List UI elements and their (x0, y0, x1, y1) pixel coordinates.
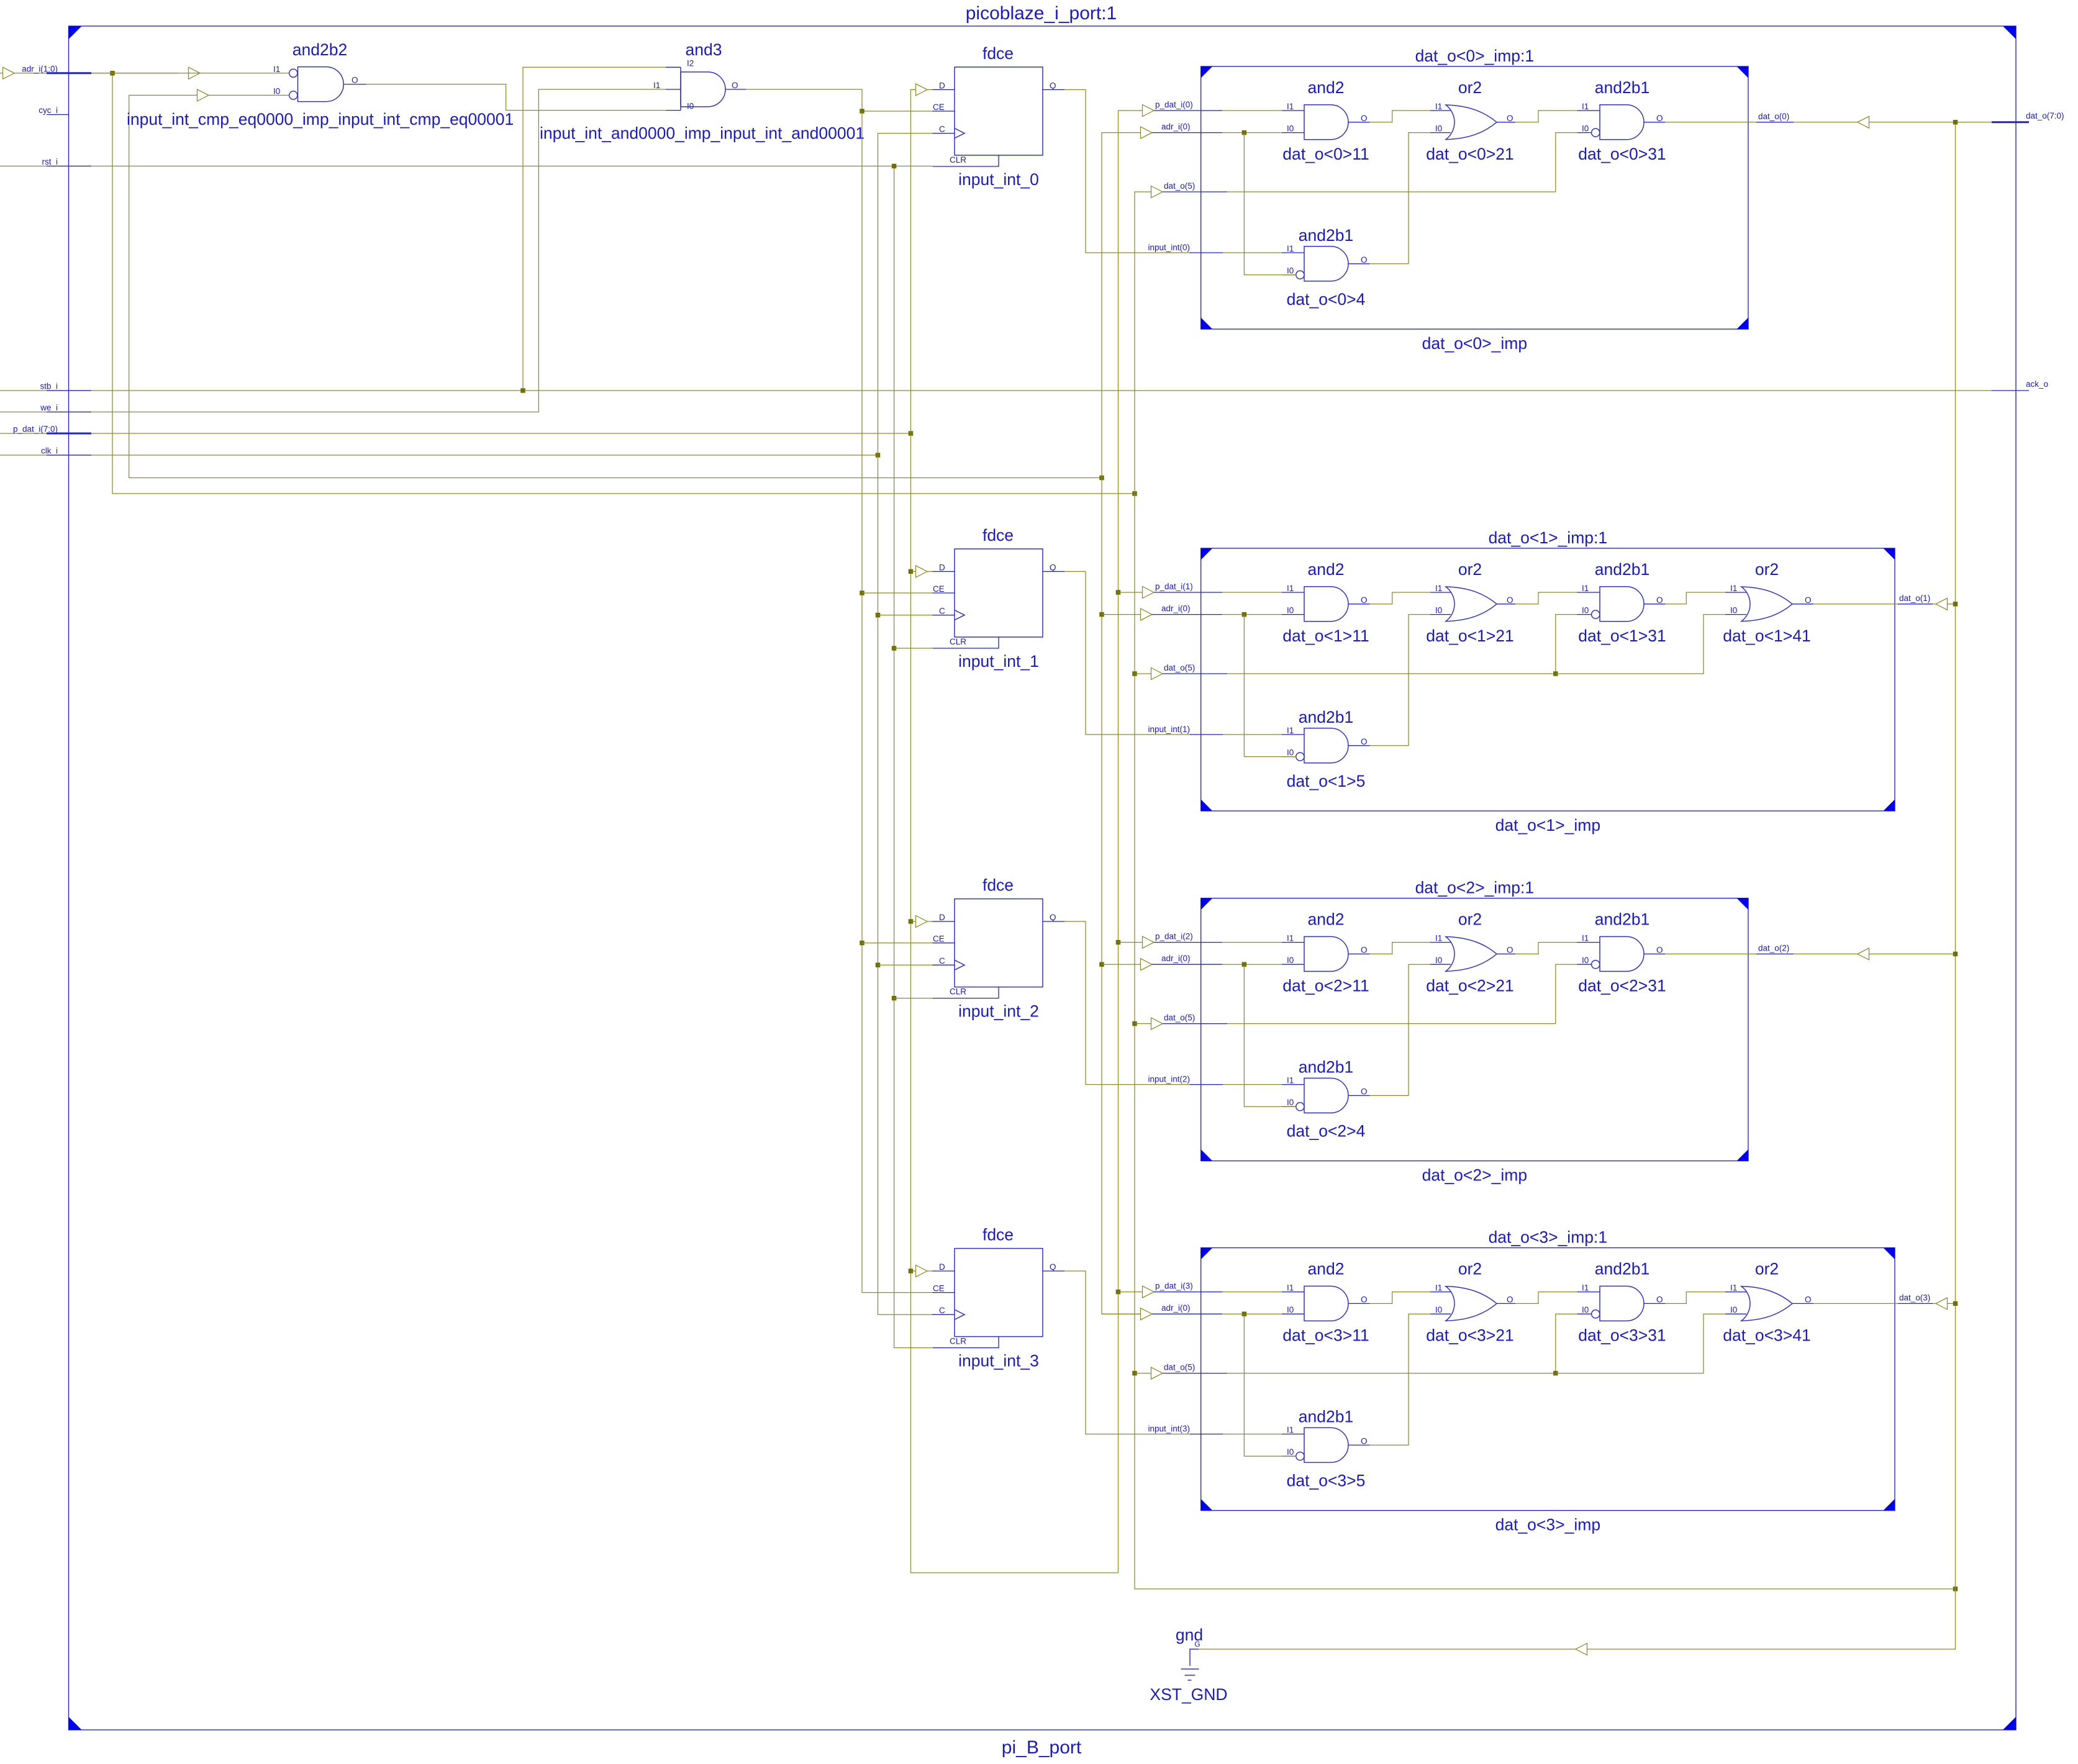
wire and2 out to or2 I1 block1 (1370, 592, 1430, 604)
svg-text:I0: I0 (1435, 1305, 1442, 1314)
svg-text:I1: I1 (1287, 726, 1294, 735)
wire rst_i to CLR rail (0, 166, 933, 167)
and-gate and2b1 dat_o<0>31 (1577, 78, 1666, 163)
svg-text:D: D (939, 913, 945, 922)
svg-text:C: C (939, 956, 945, 966)
junction adr rail block1 (1099, 612, 1104, 617)
wire or2 out to and2b1 I1 block0 (1515, 111, 1577, 122)
junction V_B branch at V5 (1099, 476, 1104, 481)
svg-text:dat_o<1>_imp: dat_o<1>_imp (1495, 816, 1600, 835)
wire and2 out to or2 I1 block0 (1370, 111, 1430, 122)
svg-text:dat_o<2>_imp: dat_o<2>_imp (1422, 1166, 1527, 1185)
svg-text:picoblaze_i_port:1: picoblaze_i_port:1 (966, 3, 1117, 24)
svg-text:CE: CE (933, 934, 945, 944)
svg-text:or2: or2 (1458, 1260, 1482, 1278)
svg-text:I1: I1 (1287, 1426, 1294, 1435)
svg-text:dat_o<2>31: dat_o<2>31 (1578, 977, 1666, 995)
svg-text:and3: and3 (686, 40, 722, 59)
or-gate or2 dat_o<1>41 (1723, 560, 1813, 645)
svg-text:D: D (939, 1262, 945, 1272)
svg-text:dat_o<3>21: dat_o<3>21 (1426, 1326, 1513, 1345)
junction V_A branch at V7 (1132, 491, 1137, 496)
svg-text:Q: Q (1050, 913, 1056, 922)
wire p_dat rail V4 with bottom link to V6 (911, 89, 1118, 1573)
svg-text:fdce: fdce (982, 1226, 1014, 1244)
svg-text:dat_o(5): dat_o(5) (1164, 181, 1195, 191)
wire we_i feed (0, 412, 538, 413)
wire dat_o(1) output to rail (1813, 594, 1955, 610)
svg-text:I1: I1 (1435, 584, 1442, 593)
svg-text:I0: I0 (1730, 1305, 1737, 1314)
wire p_dat rail V6 (1118, 111, 1145, 1573)
svg-text:and2b1: and2b1 (1595, 560, 1649, 579)
svg-text:and2: and2 (1308, 1260, 1345, 1278)
wire and2 out to or2 I1 block3 (1370, 1292, 1430, 1304)
junction C rail fdce2 (876, 962, 881, 967)
wire adr branch down to lower I0 block1 (1244, 615, 1295, 757)
junction dat_o rail block1 (1132, 671, 1137, 676)
block dat_o<2>_imp:1 border (1201, 879, 1748, 1185)
wire dat_o collection rail VR (1199, 122, 1956, 1649)
svg-text:dat_o<0>31: dat_o<0>31 (1578, 145, 1666, 163)
wire or2 out to and2b1 I1 block1 (1515, 592, 1577, 604)
wire CLR feed fdce1 (894, 648, 933, 649)
wire dat_o(5) up to and2b1 I0 block3 (1556, 1314, 1577, 1373)
junction p_dat rail fdce2 D (909, 919, 914, 924)
svg-text:p_dat_i(7:0): p_dat_i(7:0) (13, 425, 58, 434)
wire adr bus branch down (V_B) to adr rail (129, 95, 1102, 477)
svg-text:p_dat_i(1): p_dat_i(1) (1155, 582, 1193, 591)
junction p_dat rail block3 (1116, 1290, 1121, 1295)
and-gate and2b1 dat_o<2>31 (1577, 910, 1666, 995)
svg-text:dat_o<2>11: dat_o<2>11 (1282, 977, 1369, 995)
svg-text:input_int(3): input_int(3) (1148, 1424, 1190, 1434)
junction p_dat rail fdce1 D (909, 569, 914, 574)
svg-text:input_int(2): input_int(2) (1148, 1075, 1190, 1084)
svg-text:we_i: we_i (40, 403, 58, 412)
svg-text:and2b1: and2b1 (1299, 226, 1353, 245)
svg-text:ack_o: ack_o (2026, 379, 2048, 389)
svg-text:dat_o<1>5: dat_o<1>5 (1287, 772, 1366, 790)
wire C feed fdce2 (878, 964, 933, 966)
svg-text:I1: I1 (1287, 102, 1294, 111)
bus tap adr_i(0) stub block0 (1141, 122, 1282, 139)
svg-text:and2b1: and2b1 (1595, 910, 1649, 929)
svg-text:adr_i(0): adr_i(0) (1161, 954, 1191, 963)
svg-text:or2: or2 (1755, 1260, 1779, 1278)
svg-text:I0: I0 (1287, 956, 1294, 965)
svg-text:I0: I0 (1435, 606, 1442, 615)
svg-text:fdce: fdce (982, 44, 1014, 63)
svg-text:I1: I1 (1287, 1076, 1294, 1085)
svg-text:O: O (1507, 114, 1513, 123)
junction CE rail fdce1 (860, 590, 864, 595)
junction stb feed (520, 388, 525, 393)
wire and2b1 out to or2#2 I1 block3 (1665, 1292, 1725, 1304)
svg-text:and2: and2 (1308, 560, 1345, 579)
junction dat_o rail block3 (1132, 1371, 1137, 1376)
svg-text:I1: I1 (653, 81, 660, 90)
wire input_int(2) feedback from Q (1064, 921, 1282, 1085)
wire stb to and3 I2 (523, 67, 666, 391)
svg-text:dat_o<0>21: dat_o<0>21 (1426, 145, 1513, 163)
or-gate or2 dat_o<2>21 (1426, 910, 1515, 995)
port p_dat_i(7:0) (13, 425, 91, 434)
svg-text:O: O (1805, 1295, 1812, 1304)
svg-text:O: O (1361, 1087, 1368, 1096)
and-gate and2b1 dat_o<0>4 (lower) (1282, 226, 1370, 309)
svg-text:I0: I0 (687, 102, 694, 111)
svg-text:D: D (939, 563, 945, 572)
svg-text:O: O (732, 81, 738, 90)
svg-text:dat_o<0>11: dat_o<0>11 (1282, 145, 1369, 163)
and-gate and2b1 dat_o<3>31 (1577, 1260, 1666, 1345)
junction clk at V2 (876, 453, 881, 458)
svg-text:I0: I0 (1730, 606, 1737, 615)
svg-text:I1: I1 (1435, 1283, 1442, 1293)
bus tap dat_o(5) stub block3 (1135, 1363, 1556, 1380)
svg-text:and2b1: and2b1 (1299, 1058, 1353, 1077)
svg-text:dat_o(7:0): dat_o(7:0) (2026, 111, 2064, 120)
flip-flop fdce input_int_2 (932, 876, 1064, 1021)
bus tap p_dat_i(0) stub (1143, 100, 1282, 117)
svg-text:I0: I0 (1582, 956, 1589, 965)
svg-text:I1: I1 (1730, 1283, 1737, 1293)
and-gate and2b1 dat_o<1>31 (1577, 560, 1666, 645)
svg-text:or2: or2 (1755, 560, 1779, 579)
wire adr branch down to lower I0 block0 (1244, 133, 1295, 275)
junction CLR rail fdce1 (892, 646, 897, 651)
svg-text:O: O (1361, 1295, 1368, 1304)
svg-text:O: O (1361, 255, 1368, 265)
svg-text:dat_o<3>11: dat_o<3>11 (1282, 1326, 1369, 1345)
svg-text:dat_o(0): dat_o(0) (1758, 112, 1789, 121)
bus tap dat_o(5) stub block2 (1135, 1013, 1556, 1030)
svg-text:O: O (1361, 945, 1368, 954)
svg-text:I1: I1 (1582, 102, 1589, 111)
junction p_dat rail block2 (1116, 940, 1121, 945)
svg-text:dat_o(5): dat_o(5) (1164, 1013, 1195, 1023)
svg-text:I0: I0 (1582, 606, 1589, 615)
gnd wire tap arrow (1576, 1644, 1587, 1655)
svg-text:dat_o<2>4: dat_o<2>4 (1287, 1122, 1366, 1141)
wire CE feed fdce2 (862, 943, 932, 944)
junction dat_o(0) at rail (1953, 120, 1958, 125)
bus tap adr_i(0) stub block2 (1102, 954, 1282, 970)
block dat_o<1>_imp:1 border (1201, 528, 1895, 835)
block dat_o<3>_imp:1 border (1201, 1228, 1895, 1534)
svg-text:O: O (1361, 114, 1368, 123)
bus tap p_dat_i(1) stub (1118, 582, 1282, 599)
wire and3 output to CE rail (746, 89, 932, 111)
svg-text:dat_o<0>_imp:1: dat_o<0>_imp:1 (1415, 47, 1535, 65)
and-gate and2b2 input_int_cmp_eq00001 (91, 40, 514, 129)
svg-text:p_dat_i(2): p_dat_i(2) (1155, 932, 1193, 941)
wire lower and2b1 out up to or2 I0 block3 (1370, 1314, 1430, 1445)
wire dat_o(5) over to or2#2 I0 block3 (1556, 1314, 1725, 1373)
svg-text:I1: I1 (1582, 934, 1589, 943)
svg-text:and2b1: and2b1 (1595, 1260, 1649, 1278)
junction dat_o(3) at rail (1953, 1301, 1958, 1306)
svg-text:CLR: CLR (950, 155, 966, 165)
svg-text:I0: I0 (1582, 1305, 1589, 1314)
svg-text:Q: Q (1050, 81, 1056, 90)
svg-text:and2: and2 (1308, 78, 1345, 97)
bus tap adr_i(0) stub block3 (1102, 1303, 1282, 1320)
svg-text:I1: I1 (1730, 584, 1737, 593)
svg-text:dat_o<3>5: dat_o<3>5 (1287, 1472, 1366, 1490)
svg-text:and2b1: and2b1 (1299, 1408, 1353, 1426)
svg-text:input_int_2: input_int_2 (958, 1002, 1039, 1021)
wire dat_o(2) output to rail (1665, 943, 1955, 960)
svg-text:input_int_and0000_imp_input_in: input_int_and0000_imp_input_int_and00001 (540, 124, 864, 143)
junction dat_o rail bottom at VR (1953, 1586, 1958, 1591)
svg-text:O: O (1656, 945, 1663, 954)
svg-text:O: O (1656, 1295, 1663, 1304)
junction CLR rail fdce2 (892, 996, 897, 1001)
junction and3 out at CE level (860, 109, 864, 114)
wire dat_o(3) output to rail (1813, 1293, 1955, 1309)
junction adr_i(0) branch block2 (1242, 962, 1247, 967)
bus tap fdce0 D input (911, 84, 933, 96)
svg-text:O: O (1361, 595, 1368, 605)
junction adr branch at port line (110, 71, 115, 76)
port dat_o(7:0) (1956, 111, 2064, 122)
svg-text:dat_o<2>21: dat_o<2>21 (1426, 977, 1513, 995)
wire C feed fdce1 (878, 615, 933, 616)
svg-text:clk_i: clk_i (41, 446, 58, 456)
bus tap dat_o(5) stub block0 (1151, 181, 1556, 198)
svg-text:input_int_3: input_int_3 (958, 1352, 1039, 1370)
junction adr_i(0) branch block3 (1242, 1311, 1247, 1316)
wire adr rail V5 (1102, 133, 1143, 1314)
junction adr_i(0) branch block0 (1242, 130, 1247, 135)
junction adr_i(0) branch block1 (1242, 612, 1247, 617)
svg-text:pi_B_port: pi_B_port (1002, 1737, 1082, 1758)
junction C rail fdce1 (876, 613, 881, 618)
flip-flop fdce input_int_3 (932, 1226, 1064, 1370)
svg-text:CE: CE (933, 1284, 945, 1293)
svg-text:stb_i: stb_i (40, 382, 58, 391)
bus tap adr_i(0) stub block1 (1102, 604, 1282, 621)
wire dat_o rail V7 (1135, 192, 1956, 1589)
svg-text:CLR: CLR (950, 987, 966, 997)
svg-text:I0: I0 (1287, 124, 1294, 133)
svg-text:dat_o<2>_imp:1: dat_o<2>_imp:1 (1415, 879, 1535, 897)
wire CLR feed fdce2 (894, 998, 933, 999)
svg-text:C: C (939, 125, 945, 134)
bus tap dat_o(5) stub block1 (1135, 663, 1556, 680)
svg-text:dat_o<0>_imp: dat_o<0>_imp (1422, 334, 1527, 353)
svg-text:CLR: CLR (950, 637, 966, 646)
svg-text:I0: I0 (1287, 748, 1294, 758)
wire dat_o(5) up to and2b1 I0 block1 (1556, 615, 1577, 674)
svg-text:G: G (1194, 1640, 1200, 1649)
svg-text:dat_o<3>_imp:1: dat_o<3>_imp:1 (1489, 1228, 1608, 1247)
bus tap fdce3 D input (911, 1265, 933, 1277)
port stb_i (40, 382, 91, 391)
svg-text:fdce: fdce (982, 876, 1014, 895)
wire p_dat_i bus to rail V4 (0, 433, 911, 434)
svg-text:I1: I1 (1435, 102, 1442, 111)
ground symbol XST_GND (1150, 1626, 1227, 1704)
svg-text:I1: I1 (1287, 584, 1294, 593)
wire we to and3 I1 (538, 89, 665, 412)
svg-text:O: O (1507, 595, 1513, 605)
junction dat_o(5) line block1 (1553, 671, 1558, 676)
bus tap p_dat_i(2) stub (1118, 932, 1282, 949)
svg-text:I0: I0 (1287, 266, 1294, 276)
and-gate and2 dat_o<3>11 (1282, 1260, 1370, 1345)
wire input_int(3) feedback from Q (1064, 1271, 1282, 1434)
port clk_i (41, 446, 91, 456)
svg-text:adr_i(0): adr_i(0) (1161, 122, 1191, 132)
svg-text:dat_o(5): dat_o(5) (1164, 663, 1195, 672)
svg-text:adr_i(0): adr_i(0) (1161, 1303, 1191, 1313)
svg-text:I1: I1 (1582, 584, 1589, 593)
wire or2 out to and2b1 I1 block2 (1515, 943, 1577, 954)
svg-text:and2: and2 (1308, 910, 1345, 929)
wire adr branch down to lower I0 block2 (1244, 964, 1295, 1106)
svg-text:O: O (1805, 595, 1812, 605)
junction dat_o(1) at rail (1953, 602, 1958, 607)
svg-text:dat_o<3>_imp: dat_o<3>_imp (1495, 1516, 1600, 1534)
svg-text:input_int_1: input_int_1 (958, 652, 1039, 671)
svg-text:or2: or2 (1458, 560, 1482, 579)
and-gate and2b1 dat_o<3>5 (lower) (1282, 1408, 1370, 1490)
bus tap p_dat_i(3) stub (1118, 1282, 1282, 1298)
svg-text:and2b1: and2b1 (1299, 708, 1353, 726)
svg-text:I1: I1 (1287, 934, 1294, 943)
svg-text:C: C (939, 607, 945, 616)
wire and2b1 out to or2#2 I1 block1 (1665, 592, 1725, 604)
or-gate or2 dat_o<0>21 (1426, 78, 1515, 163)
wire lower and2b1 out up to or2 I0 block2 (1370, 964, 1430, 1095)
svg-text:I1: I1 (1287, 1283, 1294, 1293)
svg-text:I0: I0 (1287, 606, 1294, 615)
wire lower and2b1 out up to or2 I0 block0 (1370, 133, 1430, 264)
svg-text:O: O (1656, 595, 1663, 605)
svg-text:input_int(0): input_int(0) (1148, 243, 1190, 252)
svg-text:or2: or2 (1458, 78, 1482, 97)
wire adr bus branch down (V_A) to dat_o rail (112, 73, 1135, 494)
svg-text:I0: I0 (1287, 1305, 1294, 1314)
svg-text:dat_o<1>41: dat_o<1>41 (1723, 626, 1810, 645)
junction adr rail block2 (1099, 962, 1104, 967)
svg-text:adr_i(1:0): adr_i(1:0) (22, 64, 58, 73)
wire dat_o(5) up to and2b1 I0 block0 (1556, 133, 1577, 192)
or-gate or2 dat_o<3>21 (1426, 1260, 1515, 1345)
svg-text:D: D (939, 81, 945, 90)
svg-text:O: O (1507, 945, 1513, 954)
junction p_dat rail block1 (1116, 590, 1121, 595)
port cyc_i (39, 106, 68, 115)
bus tap fdce2 D input (911, 916, 933, 928)
svg-text:adr_i(0): adr_i(0) (1161, 604, 1191, 613)
wire CLR rail V3 (894, 166, 933, 1348)
or-gate or2 dat_o<3>41 (1723, 1260, 1813, 1345)
flip-flop fdce input_int_1 (932, 526, 1064, 671)
wire input_int(0) feedback from Q (1064, 89, 1282, 253)
svg-text:dat_o<1>_imp:1: dat_o<1>_imp:1 (1489, 528, 1608, 547)
junction p_dat at V4 (909, 431, 914, 436)
svg-text:I0: I0 (1287, 1447, 1294, 1457)
or-gate or2 dat_o<1>21 (1426, 560, 1515, 645)
svg-text:I0: I0 (1435, 956, 1442, 965)
wire dat_o(5) over to or2#2 I0 block1 (1556, 615, 1725, 674)
wire C rail V2 (878, 133, 933, 1315)
svg-text:input_int(1): input_int(1) (1148, 725, 1190, 734)
port we_i (40, 403, 91, 412)
svg-text:dat_o<1>11: dat_o<1>11 (1282, 626, 1369, 645)
svg-text:O: O (1361, 1436, 1368, 1445)
wire clk_i to rail V2 (0, 455, 878, 456)
port rst_i (42, 157, 91, 166)
svg-text:dat_o<1>31: dat_o<1>31 (1578, 626, 1666, 645)
svg-text:O: O (1361, 737, 1368, 746)
wire dat_o(0) output to rail (1665, 112, 1955, 129)
svg-text:and2b2: and2b2 (293, 40, 347, 59)
wire and2 out to or2 I1 block2 (1370, 943, 1430, 954)
svg-text:dat_o<3>31: dat_o<3>31 (1578, 1326, 1666, 1345)
junction CLR rail at rst line (892, 164, 897, 169)
junction CE rail fdce2 (860, 941, 864, 946)
and-gate and3 input_int_and00001 (540, 40, 864, 143)
block dat_o<0>_imp:1 border (1201, 47, 1748, 353)
junction dat_o rail block2 (1132, 1021, 1137, 1026)
svg-text:p_dat_i(0): p_dat_i(0) (1155, 100, 1193, 109)
svg-text:O: O (352, 76, 358, 85)
port ack_o (1992, 379, 2048, 391)
svg-text:XST_GND: XST_GND (1150, 1685, 1227, 1704)
svg-text:dat_o(1): dat_o(1) (1899, 594, 1930, 603)
svg-text:dat_o<3>41: dat_o<3>41 (1723, 1326, 1810, 1345)
svg-text:dat_o(5): dat_o(5) (1164, 1363, 1195, 1372)
svg-text:or2: or2 (1458, 910, 1482, 929)
svg-text:Q: Q (1050, 563, 1056, 572)
wire input_int(1) feedback from Q (1064, 571, 1282, 735)
svg-text:I0: I0 (1435, 124, 1442, 133)
svg-text:dat_o(3): dat_o(3) (1899, 1293, 1930, 1302)
svg-text:I1: I1 (273, 65, 280, 74)
svg-text:input_int_0: input_int_0 (958, 170, 1039, 189)
svg-text:fdce: fdce (982, 526, 1014, 545)
and-gate and2b1 dat_o<1>5 (lower) (1282, 708, 1370, 790)
and-gate and2 dat_o<1>11 (1282, 560, 1370, 645)
svg-text:CLR: CLR (950, 1337, 966, 1346)
svg-text:input_int_cmp_eq0000_imp_input: input_int_cmp_eq0000_imp_input_int_cmp_e… (127, 110, 514, 129)
wire stb_i / ack_o line (0, 390, 1992, 391)
and-gate and2 dat_o<0>11 (1282, 78, 1370, 163)
svg-text:CE: CE (933, 102, 945, 112)
svg-text:rst_i: rst_i (42, 157, 58, 166)
svg-text:and2b1: and2b1 (1595, 78, 1649, 97)
flip-flop fdce input_int_0 (932, 44, 1064, 189)
wire lower and2b1 out up to or2 I0 block1 (1370, 615, 1430, 746)
svg-text:I1: I1 (1287, 244, 1294, 253)
svg-text:I0: I0 (1582, 124, 1589, 133)
svg-text:C: C (939, 1306, 945, 1315)
svg-text:Q: Q (1050, 1262, 1056, 1272)
port adr_i(1:0) (0, 64, 178, 79)
junction p_dat rail fdce3 D (909, 1269, 914, 1273)
svg-text:dat_o<1>21: dat_o<1>21 (1426, 626, 1513, 645)
svg-text:I0: I0 (273, 86, 280, 96)
svg-text:I1: I1 (1582, 1283, 1589, 1293)
junction dat_o(5) line block3 (1553, 1371, 1558, 1376)
svg-text:CE: CE (933, 584, 945, 594)
svg-text:dat_o(2): dat_o(2) (1758, 943, 1789, 952)
